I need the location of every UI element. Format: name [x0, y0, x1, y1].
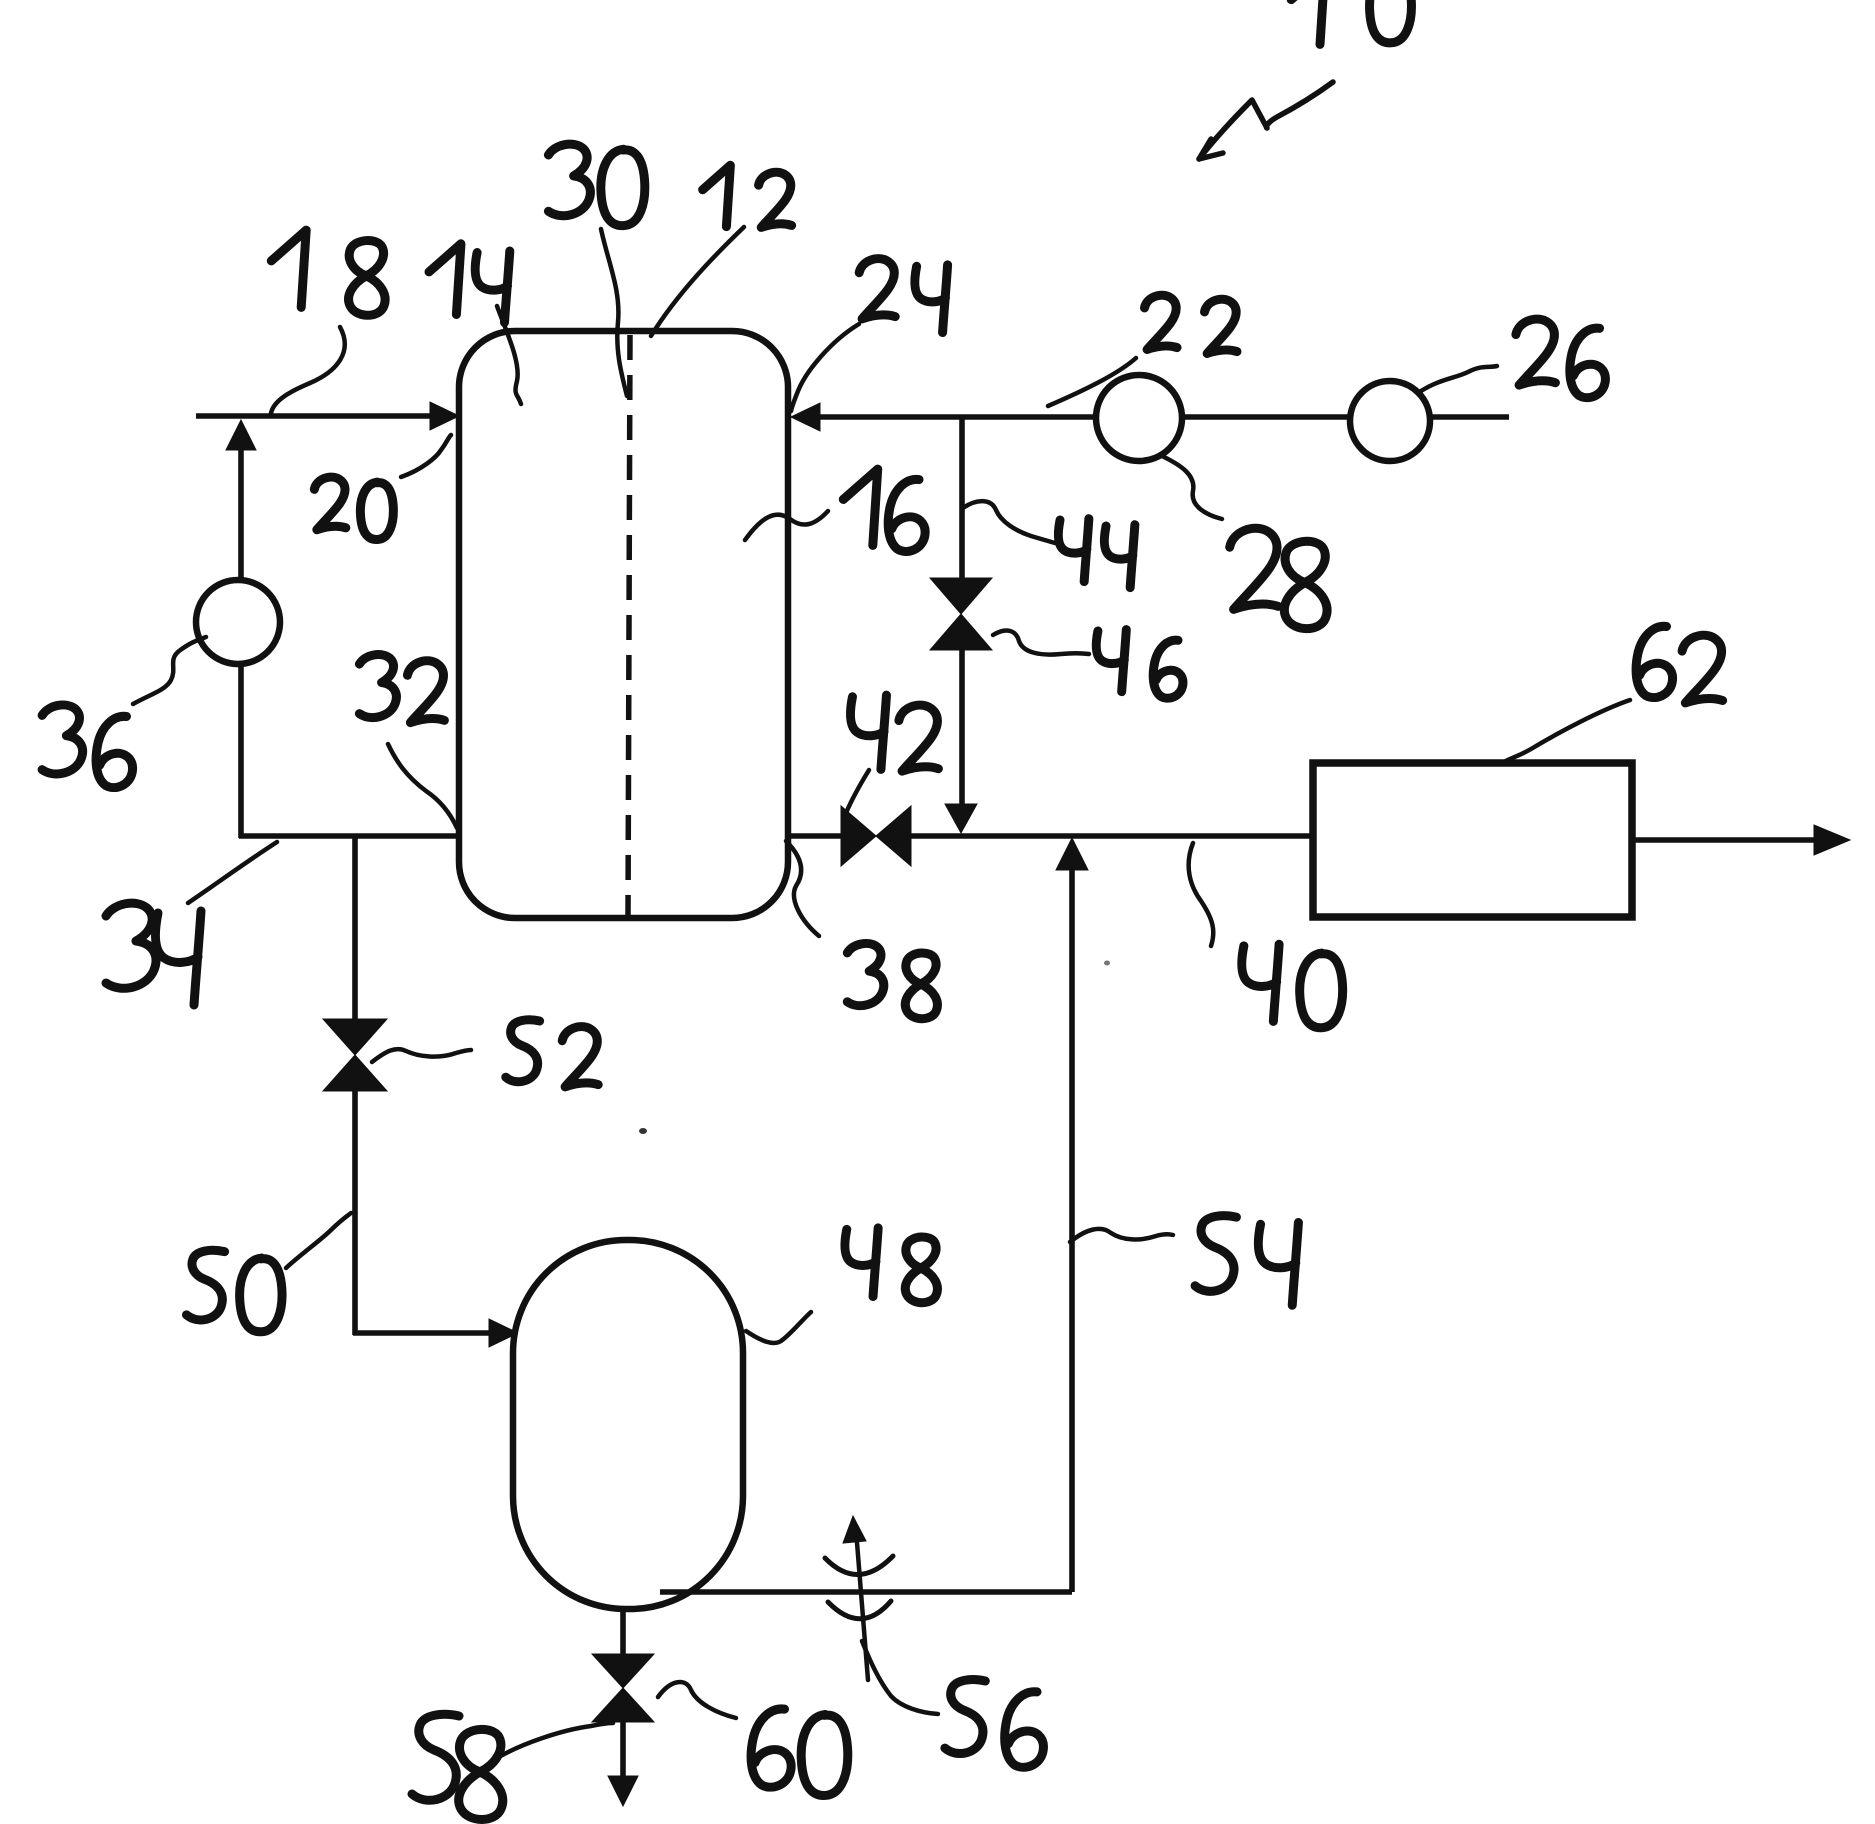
label 14 — [429, 244, 510, 323]
wire: tank bottom drain — [620, 1609, 626, 1654]
scan speck — [639, 1128, 647, 1134]
label 20 — [314, 477, 393, 539]
label 30 — [548, 144, 644, 226]
leader 26 — [1421, 366, 1497, 391]
leader 48 — [746, 1312, 811, 1343]
label 50 — [186, 1250, 282, 1332]
leader 46 — [993, 630, 1089, 654]
label 34 — [106, 903, 201, 1005]
label 52 — [506, 1020, 598, 1087]
scan speck — [1104, 961, 1110, 966]
leader 54 — [1070, 1229, 1173, 1242]
label 28 — [1230, 528, 1327, 628]
label 54 — [1195, 1216, 1298, 1306]
wire: bottom-left line 34 — [239, 833, 462, 839]
label 62 — [1636, 626, 1723, 703]
wire: recirculation riser (left vertical) — [238, 436, 244, 838]
leader 24 — [791, 324, 859, 411]
leader 14 — [497, 306, 521, 404]
wire: permeate line 40 (bottom horizontal) — [788, 833, 844, 839]
label 60 — [751, 1709, 848, 1796]
arrowhead outlet — [1814, 825, 1850, 855]
leader 50 — [286, 1213, 351, 1268]
vessel 12 (membrane module) — [459, 331, 788, 918]
leader 38 — [786, 841, 819, 936]
label 32 — [359, 655, 444, 723]
sensor circle 26 — [1350, 381, 1430, 461]
arrowhead up on riser — [226, 420, 256, 450]
leader 18 — [271, 327, 345, 413]
arrowhead down at end of branch 44 — [945, 804, 977, 833]
pump circle 36 — [196, 580, 280, 664]
leader 34 — [188, 842, 277, 903]
leader 36 — [133, 637, 206, 704]
leader 40 — [1189, 843, 1214, 946]
leader 16 tilde — [745, 511, 828, 540]
wire: drain line 50 vertical — [352, 836, 358, 1021]
leader 28 — [1160, 455, 1222, 519]
arrowhead into tank 48 — [489, 1319, 518, 1347]
leader 42 — [846, 770, 869, 813]
label 18 — [271, 230, 385, 315]
arrow 24 into vessel right — [791, 403, 820, 431]
leader 52 — [372, 1049, 471, 1062]
leader 62 — [1504, 700, 1630, 762]
valve 52 — [323, 1019, 387, 1055]
label 48 — [845, 1228, 937, 1303]
label 38 — [847, 943, 937, 1018]
leader 12 — [651, 227, 744, 336]
leader 32 — [388, 744, 457, 828]
leader 20 — [401, 435, 451, 477]
valve 58 — [592, 1654, 654, 1688]
arrowhead drain outlet 60 — [608, 1776, 638, 1806]
label 12 — [703, 165, 792, 227]
wire: branch 44 vertical — [959, 417, 965, 582]
component box 62 — [1313, 763, 1632, 917]
label 24 — [859, 259, 947, 333]
sensor circle 22 — [1096, 375, 1182, 461]
label 40 — [1242, 944, 1343, 1027]
label 46 — [1096, 630, 1183, 699]
arrow 20 into vessel left — [430, 402, 459, 430]
leader 60 — [658, 1682, 736, 1718]
tank 48 (capsule) — [513, 1240, 743, 1609]
membrane 30 dashed divider — [628, 335, 630, 915]
leader 56 — [862, 1641, 938, 1714]
wire: outlet line — [1632, 837, 1818, 843]
label 42 — [851, 695, 939, 771]
control valve 56 — [856, 1530, 868, 1680]
wire: line 50 horizontal into tank — [353, 1330, 490, 1336]
leader 22 — [1048, 358, 1136, 406]
junction arrow up (line 54 joins) — [1056, 838, 1088, 870]
wire: feed line 18 (top left horizontal) — [196, 413, 436, 419]
label 26 — [1516, 319, 1605, 398]
label 36 — [42, 705, 132, 788]
overall reference arrow 10 (zigzag) — [1199, 82, 1333, 159]
wire: top right feed line — [816, 414, 1509, 420]
leader 44 — [963, 501, 1055, 543]
label 22 — [1145, 295, 1238, 353]
label 58 — [412, 1714, 503, 1819]
label 16 — [843, 469, 925, 551]
label 56 — [945, 1680, 1044, 1768]
valve 42 — [841, 806, 876, 866]
valve 46 — [930, 578, 992, 614]
leader 30 — [601, 229, 627, 396]
label 10 — [1291, 0, 1411, 44]
leader 58 — [497, 1723, 613, 1758]
label 44 — [1058, 519, 1134, 588]
wire: tank to riser 54 horizontal — [660, 1589, 1072, 1595]
wire: riser 54 vertical — [1069, 868, 1075, 1592]
